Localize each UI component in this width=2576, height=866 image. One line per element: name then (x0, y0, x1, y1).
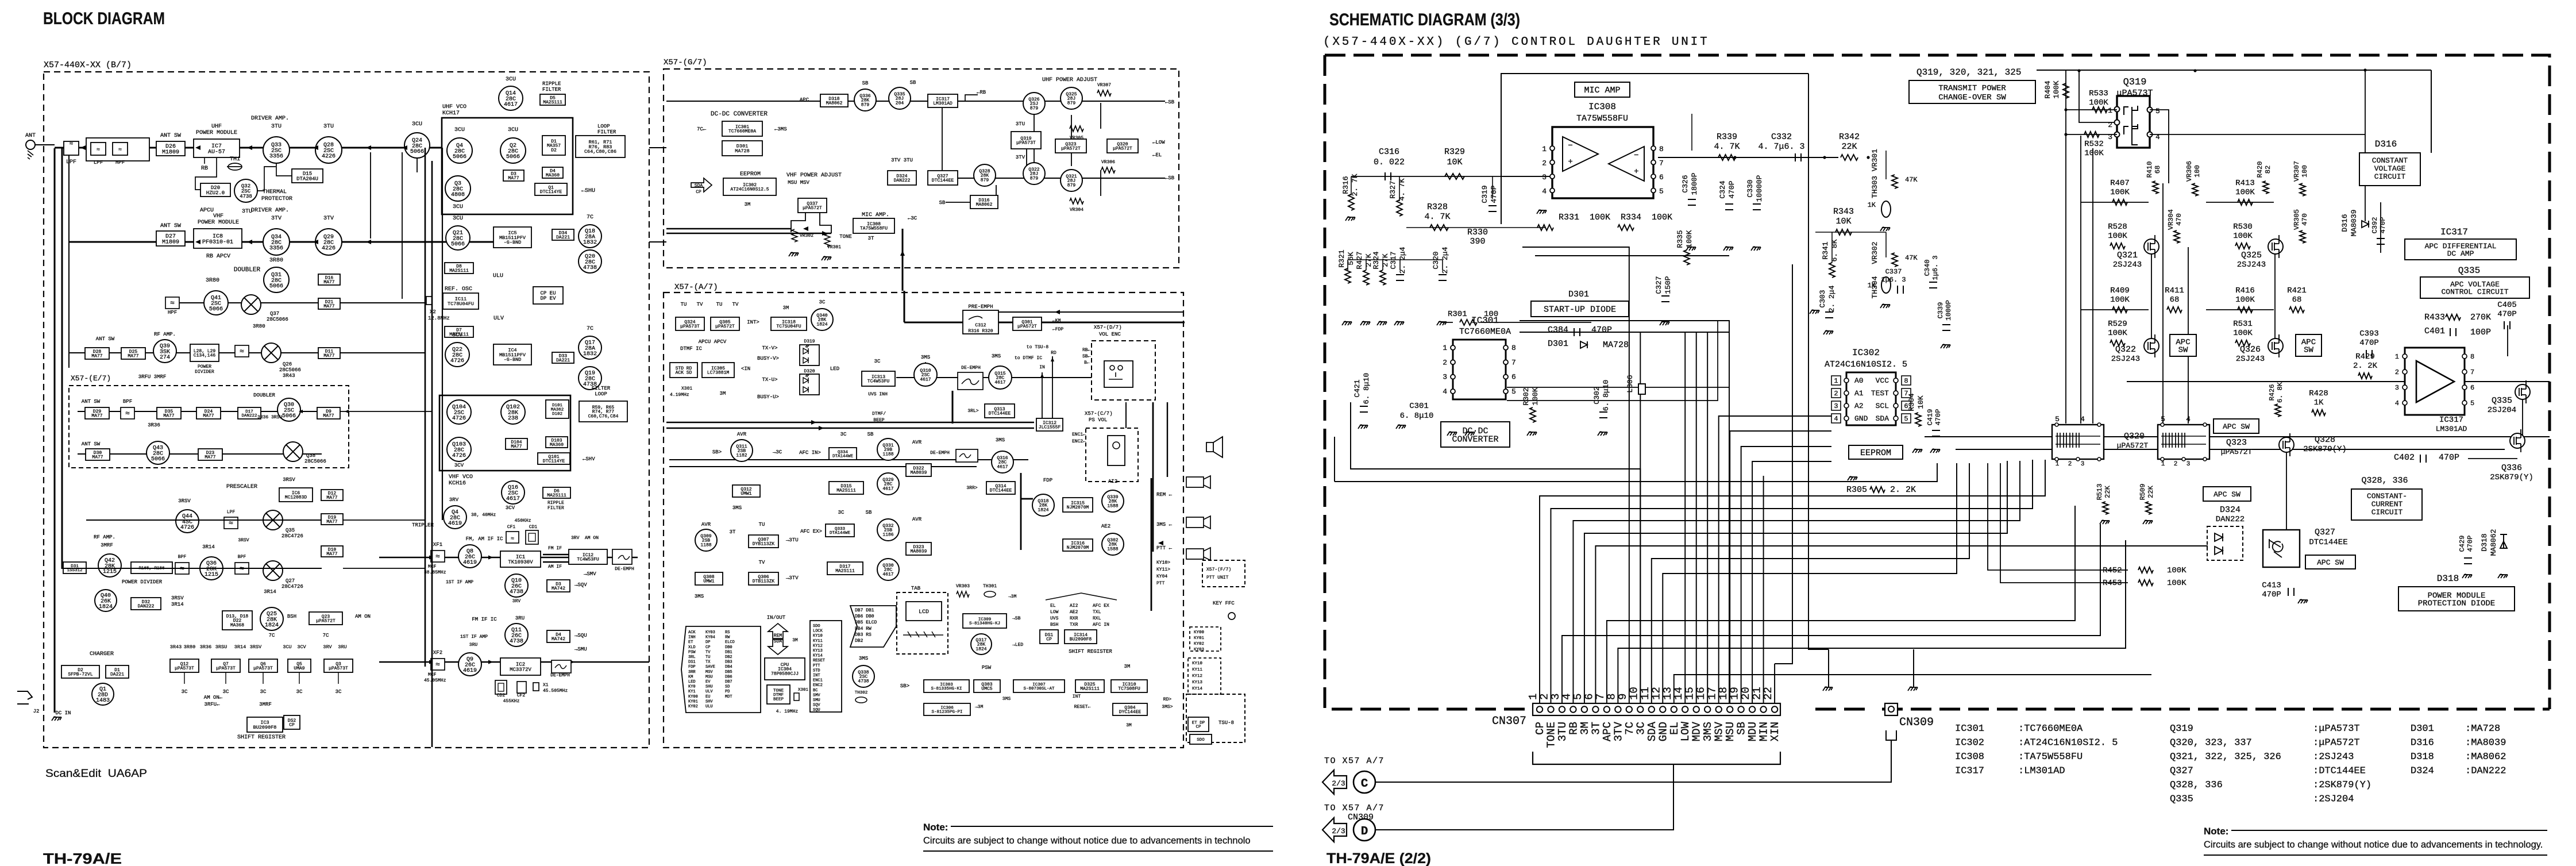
svg-text:X57-(A/7): X57-(A/7) (674, 283, 718, 292)
svg-text:AM IF: AM IF (548, 564, 562, 569)
svg-text:DOUBLER: DOUBLER (234, 267, 261, 274)
svg-text:6. 8K: 6. 8K (1830, 239, 1839, 261)
svg-text:1: 1 (2108, 106, 2112, 115)
svg-text:LM301AD: LM301AD (933, 101, 952, 106)
svg-text:IN: IN (1039, 365, 1045, 370)
svg-text:3T: 3T (868, 236, 874, 241)
svg-text:TAB: TAB (911, 586, 921, 591)
svg-text:3R43: 3R43 (283, 373, 295, 379)
svg-text:RD: RD (1051, 351, 1056, 356)
svg-text:10000P: 10000P (1755, 175, 1764, 202)
svg-text:to TSU-8: to TSU-8 (1027, 345, 1049, 350)
svg-text:MA77: MA77 (323, 414, 334, 419)
svg-text:DB2: DB2 (725, 655, 732, 660)
svg-text:DTA204U: DTA204U (296, 176, 318, 182)
svg-text:4. 7K: 4. 7K (1424, 212, 1450, 222)
svg-text:CF1: CF1 (507, 525, 516, 530)
svg-text:DB3 RS: DB3 RS (855, 632, 871, 637)
svg-text:R531: R531 (2233, 320, 2253, 329)
svg-text:3MS: 3MS (992, 353, 1001, 359)
svg-text:VR306: VR306 (2185, 161, 2193, 182)
svg-text:-G-BND: -G-BND (504, 240, 522, 245)
svg-text:Q321: Q321 (2117, 251, 2138, 260)
svg-text:TC4W53FU: TC4W53FU (577, 557, 599, 563)
svg-text:D301: D301 (1548, 339, 1568, 349)
svg-text:-G-BND: -G-BND (504, 357, 522, 363)
svg-text:5066: 5066 (451, 241, 465, 248)
svg-text:LCD: LCD (919, 609, 929, 615)
svg-text:SB>: SB> (712, 449, 722, 455)
svg-text:28C4726: 28C4726 (281, 584, 303, 590)
svg-text:C339: C339 (1937, 302, 1945, 319)
svg-text:5066: 5066 (506, 154, 520, 160)
svg-text:DB7: DB7 (725, 680, 732, 684)
svg-text:Q37: Q37 (270, 311, 279, 317)
svg-text:≈: ≈ (240, 347, 244, 356)
svg-text:R334 100K: R334 100K (1621, 213, 1672, 222)
svg-text:D316: D316 (2375, 139, 2397, 149)
svg-text:KY14: KY14 (813, 654, 823, 659)
svg-text:AM ON: AM ON (355, 614, 371, 619)
svg-text:ACK SD: ACK SD (676, 371, 692, 376)
svg-text:FILTER: FILTER (597, 129, 616, 135)
svg-text:CIRCUIT: CIRCUIT (2374, 172, 2406, 181)
svg-text:1: 1 (2395, 353, 2399, 361)
svg-text:Circuits are subject to change: Circuits are subject to change without n… (2204, 840, 2543, 850)
svg-text:TH303 VR301: TH303 VR301 (1871, 149, 1879, 198)
svg-text:AU-57: AU-57 (208, 149, 225, 155)
svg-text:2. 2μ4: 2. 2μ4 (1441, 247, 1449, 274)
svg-text:EEPROM: EEPROM (740, 171, 761, 178)
svg-text:MA8062: MA8062 (2489, 529, 2498, 556)
svg-text:Q335: Q335 (2458, 265, 2480, 276)
svg-text:8: 8 (1904, 377, 1908, 385)
svg-text:D2: D2 (551, 148, 557, 153)
svg-text:DTC144EE: DTC144EE (990, 488, 1012, 494)
svg-text:6. 8μ10: 6. 8μ10 (1602, 380, 1610, 411)
svg-text:4: 4 (2186, 415, 2191, 424)
svg-text:3MRF: 3MRF (101, 542, 113, 548)
svg-text:TC7660ME0A: TC7660ME0A (1459, 327, 1511, 337)
svg-text:3CU: 3CU (412, 121, 422, 128)
svg-text:DB4 RW: DB4 RW (855, 626, 871, 632)
svg-text:ANT SW: ANT SW (160, 223, 181, 229)
svg-text:TEST: TEST (1871, 389, 1889, 398)
svg-text:3R14: 3R14 (202, 544, 215, 550)
svg-text:DE-EMPH: DE-EMPH (930, 451, 950, 456)
svg-text:1000P: 1000P (1945, 300, 1953, 321)
svg-text:3RU: 3RU (469, 642, 478, 648)
svg-text:2SJ243: 2SJ243 (2236, 355, 2265, 364)
svg-text:68: 68 (2154, 165, 2162, 174)
svg-text:4: 4 (1834, 415, 1838, 423)
svg-text:TC7S08FU: TC7S08FU (1118, 687, 1140, 692)
svg-text:1: 1 (1443, 344, 1447, 352)
svg-text:100K: 100K (2084, 149, 2104, 158)
svg-text:KY10: KY10 (1192, 661, 1203, 666)
svg-text:SMV: SMV (813, 693, 820, 698)
svg-text:MA728: MA728 (1603, 340, 1629, 350)
svg-text:AFC EX>: AFC EX> (800, 529, 822, 534)
svg-text:C303: C303 (1818, 290, 1827, 307)
svg-text:DTMF/: DTMF/ (872, 411, 886, 417)
svg-text:MC12083D: MC12083D (285, 495, 307, 501)
svg-text:RXR: RXR (1070, 616, 1078, 621)
svg-text:R321: R321 (1337, 249, 1346, 267)
svg-text:DB1: DB1 (725, 650, 732, 655)
svg-text:4226: 4226 (322, 153, 336, 160)
svg-text:3CV: 3CV (297, 644, 306, 650)
svg-text:POWER: POWER (198, 364, 211, 370)
svg-text:MA8062: MA8062 (976, 202, 993, 207)
svg-text:5066: 5066 (151, 456, 165, 463)
svg-text:MA2S111: MA2S111 (543, 100, 562, 105)
svg-text:3M: 3M (1124, 664, 1131, 669)
svg-text:TH-79A/E: TH-79A/E (43, 850, 122, 866)
svg-text:TU: TU (705, 655, 710, 660)
svg-text:SDA: SDA (774, 639, 782, 644)
svg-text:3MRF: 3MRF (259, 702, 272, 707)
svg-text:→3C: →3C (773, 449, 782, 455)
svg-text:CD2: CD2 (497, 693, 506, 698)
svg-text:1: 1 (1834, 377, 1838, 385)
svg-text:3RFU 3MRF: 3RFU 3MRF (138, 374, 167, 380)
svg-text:μPA572T: μPA572T (1061, 147, 1081, 152)
svg-text:3T: 3T (730, 529, 736, 535)
svg-text:MA77: MA77 (205, 455, 215, 460)
svg-text:X2: X2 (430, 309, 436, 315)
svg-text:→3TV: →3TV (786, 575, 799, 581)
svg-text:C312: C312 (975, 323, 986, 328)
svg-text:1188: 1188 (700, 543, 711, 548)
svg-text:TSU-8: TSU-8 (1218, 720, 1234, 726)
svg-text:MSU: MSU (705, 675, 713, 679)
svg-text:MA77: MA77 (508, 176, 519, 181)
svg-text:PSW: PSW (982, 665, 992, 671)
svg-text:2. 7K: 2. 7K (1351, 174, 1359, 196)
svg-text:22K: 22K (2104, 485, 2112, 498)
svg-text:D320: D320 (804, 369, 815, 374)
svg-text:ANT SW: ANT SW (82, 441, 101, 447)
svg-text:R416: R416 (2235, 286, 2255, 295)
svg-text:DTC144EE: DTC144EE (932, 178, 954, 183)
svg-text:(X57-440X-XX) (G/7) CONTROL DA: (X57-440X-XX) (G/7) CONTROL DAUGHTER UNI… (1323, 36, 1709, 49)
svg-text:→SMV: →SMV (584, 571, 596, 577)
svg-text:ULV: ULV (705, 690, 713, 694)
svg-text:390: 390 (1470, 237, 1485, 247)
svg-text:C384: C384 (1548, 325, 1568, 335)
svg-text:MIC AMP: MIC AMP (1584, 86, 1620, 95)
svg-text:LOW: LOW (1050, 610, 1059, 615)
svg-text:DTA144WE: DTA144WE (832, 455, 854, 459)
svg-text:4: 4 (2080, 415, 2085, 424)
svg-text:3CV: 3CV (506, 505, 515, 511)
svg-text:BC: BC (813, 688, 817, 693)
svg-text:M1809: M1809 (162, 239, 179, 245)
svg-text:TC7660ME0A: TC7660ME0A (728, 129, 756, 134)
svg-text:Q35: Q35 (286, 528, 295, 533)
svg-text:MA8039: MA8039 (911, 471, 927, 476)
svg-text:3RU: 3RU (515, 615, 525, 621)
svg-text:0. 022: 0. 022 (1374, 157, 1405, 167)
svg-text:D318: D318 (2437, 574, 2459, 584)
svg-text:IC317: IC317 (2440, 227, 2468, 237)
svg-text:Q327: Q327 (2315, 528, 2335, 537)
svg-text:PD: PD (725, 690, 730, 694)
svg-text:100K: 100K (2110, 188, 2130, 197)
svg-text:DC-DC CONVERTER: DC-DC CONVERTER (711, 111, 768, 118)
svg-text:238: 238 (508, 415, 518, 422)
svg-text:3TV: 3TV (1016, 155, 1025, 160)
svg-text:Q336: Q336 (2501, 463, 2522, 473)
svg-text:STD: STD (813, 668, 820, 673)
svg-text:C324: C324 (1718, 180, 1727, 198)
svg-text:THERMAL: THERMAL (263, 189, 287, 195)
svg-text:3CU: 3CU (506, 76, 516, 83)
svg-text:MA368: MA368 (230, 623, 244, 628)
svg-text:100K: 100K (2235, 188, 2255, 197)
svg-text:4: 4 (1542, 187, 1547, 196)
svg-text:KY14: KY14 (1192, 687, 1203, 691)
svg-text:5066: 5066 (269, 283, 283, 290)
svg-text:28C5066: 28C5066 (279, 367, 301, 373)
svg-text:MA77: MA77 (91, 414, 102, 419)
svg-text:8: 8 (2470, 353, 2474, 361)
svg-text:μPA573T: μPA573T (253, 666, 273, 671)
svg-text:XLD: XLD (688, 645, 696, 650)
svg-text:7C: 7C (587, 214, 593, 221)
svg-text:C332: C332 (1771, 132, 1792, 142)
svg-text:TX-V>: TX-V> (762, 345, 777, 351)
svg-text:C402: C402 (2394, 453, 2415, 463)
svg-text:12.8MHz: 12.8MHz (428, 315, 450, 321)
svg-text:Q323: Q323 (2226, 438, 2247, 448)
svg-text:R404: R404 (2043, 80, 2052, 98)
svg-text:470P: 470P (2439, 453, 2459, 463)
svg-text:R305: R305 (1846, 485, 1867, 495)
svg-text:3MS>: 3MS> (1162, 705, 1173, 710)
svg-text:DC IN: DC IN (55, 710, 71, 716)
svg-text:BU2090F8: BU2090F8 (1070, 637, 1092, 642)
svg-text:EL: EL (1050, 603, 1056, 609)
svg-text:MSV: MSV (705, 670, 713, 675)
svg-text:3M: 3M (783, 305, 789, 311)
svg-text:3R36 3RSU: 3R36 3RSU (257, 415, 282, 420)
svg-text:MA8039: MA8039 (2350, 210, 2358, 237)
svg-text:IC308: IC308 (1955, 752, 1984, 763)
svg-text::AT24C16N10SI2. 5: :AT24C16N10SI2. 5 (2018, 738, 2118, 749)
svg-text:MA77: MA77 (326, 495, 337, 501)
svg-text:DA221: DA221 (556, 235, 570, 240)
svg-text:4808: 4808 (451, 192, 465, 198)
svg-text:4738: 4738 (583, 265, 597, 271)
svg-text:SW: SW (2304, 346, 2313, 355)
svg-text:DYC144EE: DYC144EE (1119, 710, 1142, 715)
svg-text:C: C (1361, 778, 1368, 791)
svg-text:C317: C317 (1389, 251, 1398, 269)
svg-text:PROTECTION DIODE: PROTECTION DIODE (2418, 599, 2495, 609)
svg-text:100K: 100K (2235, 295, 2255, 305)
svg-text:Q26: Q26 (283, 361, 292, 367)
svg-text:879: 879 (1067, 101, 1076, 106)
svg-text:100K: 100K (2167, 566, 2186, 575)
svg-text:KY04: KY04 (705, 636, 715, 640)
svg-text:470P: 470P (2466, 536, 2474, 552)
svg-text:KY03: KY03 (705, 630, 715, 635)
svg-text:−: − (1568, 141, 1572, 151)
svg-text:MA2S111: MA2S111 (835, 569, 855, 574)
svg-text:MA2S111: MA2S111 (836, 488, 856, 494)
svg-text:7: 7 (2470, 368, 2474, 376)
svg-text:IC302: IC302 (1852, 348, 1880, 358)
svg-text:5: 5 (2470, 399, 2474, 407)
svg-text:KY00: KY00 (1194, 630, 1205, 635)
svg-text:TO X57 A/7: TO X57 A/7 (1324, 756, 1385, 766)
svg-text:2SJ204: 2SJ204 (2488, 406, 2516, 415)
svg-text:4738: 4738 (510, 638, 523, 645)
svg-text:BPF: BPF (238, 555, 246, 560)
svg-text:C320: C320 (1432, 251, 1440, 269)
svg-text:DTC144EE: DTC144EE (2309, 538, 2347, 547)
svg-text:Note:: Note: (2204, 826, 2228, 837)
svg-text:R327: R327 (1389, 180, 1397, 198)
svg-text:BSH: BSH (1050, 622, 1059, 628)
svg-text:FM IF IC: FM IF IC (472, 617, 497, 622)
svg-text:C393: C393 (2359, 329, 2379, 338)
svg-text:DTA144WE: DTA144WE (830, 531, 851, 536)
svg-text:R426: R426 (2268, 384, 2276, 401)
svg-text:SDA: SDA (695, 183, 703, 188)
svg-text:MDT: MDT (725, 695, 732, 699)
svg-text:REM: REM (774, 633, 782, 638)
svg-text:KY00: KY00 (688, 695, 698, 699)
svg-text:PF0310-01: PF0310-01 (202, 239, 233, 245)
svg-text::MA728: :MA728 (2465, 723, 2500, 734)
svg-text:TC78U04FU: TC78U04FU (448, 301, 474, 307)
svg-text:D324: D324 (2411, 766, 2434, 777)
svg-text:LPF: LPF (227, 510, 236, 515)
svg-text:SQV: SQV (813, 703, 820, 708)
svg-text:APC SW: APC SW (2317, 558, 2344, 567)
svg-text:VR305: VR305 (2293, 209, 2301, 230)
svg-text:CONSTANT: CONSTANT (2372, 156, 2408, 165)
svg-text:D318: D318 (2480, 533, 2489, 551)
svg-text:MIC AMP.: MIC AMP. (862, 212, 889, 218)
svg-text:100K: 100K (2108, 232, 2127, 241)
svg-text:KY12: KY12 (1192, 674, 1202, 679)
svg-text:1588: 1588 (1107, 504, 1118, 509)
svg-text:EV: EV (705, 680, 711, 684)
svg-text:PTT ←: PTT ← (1156, 545, 1173, 551)
svg-text:100K: 100K (2108, 329, 2127, 338)
svg-text:ENC2←: ENC2← (1072, 439, 1086, 444)
svg-text:5066: 5066 (209, 306, 223, 313)
svg-text:4617: 4617 (997, 465, 1008, 470)
svg-text:Q328, 336: Q328, 336 (2361, 476, 2408, 486)
svg-text:S-81335HG-KI: S-81335HG-KI (931, 687, 962, 691)
svg-text:879: 879 (861, 103, 870, 108)
svg-text:DB7 DB1: DB7 DB1 (855, 608, 874, 613)
svg-text:CF2: CF2 (517, 693, 526, 698)
svg-text:BEEP: BEEP (773, 697, 784, 702)
svg-text:5066: 5066 (410, 149, 424, 155)
svg-text:→SQV: →SQV (574, 582, 587, 588)
svg-text:1μ6. 3: 1μ6. 3 (1931, 255, 1939, 280)
svg-text:←SHV: ←SHV (583, 456, 595, 462)
svg-text:←SHU: ←SHU (581, 188, 595, 194)
svg-text:TH301: TH301 (983, 584, 997, 589)
svg-text:DB6 DB0: DB6 DB0 (855, 614, 874, 619)
svg-text:3MS ←: 3MS ← (1156, 522, 1173, 528)
svg-text:3RSV: 3RSV (283, 477, 295, 483)
svg-text:UHF POWER ADJUST: UHF POWER ADJUST (1042, 77, 1097, 83)
svg-text:DAN222: DAN222 (138, 604, 155, 609)
svg-text:PROTECTOR: PROTECTOR (261, 196, 292, 202)
svg-text:3CV: 3CV (452, 332, 462, 338)
svg-text:D: D (1361, 825, 1368, 838)
svg-text:3C: 3C (296, 689, 303, 695)
svg-text:VCC: VCC (1876, 376, 1889, 385)
svg-text::μPA573T: :μPA573T (2313, 723, 2360, 734)
svg-text:S-80730SL-AT: S-80730SL-AT (1023, 687, 1055, 691)
svg-text:879: 879 (1030, 176, 1039, 182)
svg-text:←SB: ←SB (1165, 175, 1175, 181)
svg-text:5066: 5066 (282, 413, 296, 419)
svg-text:4. 7K: 4. 7K (1398, 178, 1406, 201)
svg-text:RB APCV: RB APCV (206, 253, 230, 260)
svg-text:3RU: 3RU (338, 644, 346, 650)
svg-text:MA77: MA77 (326, 519, 337, 525)
svg-text:EEPROM: EEPROM (1860, 448, 1891, 458)
svg-text:DRIVER AMP.: DRIVER AMP. (251, 207, 289, 214)
svg-text:SCHEMATIC DIAGRAM (3/3): SCHEMATIC DIAGRAM (3/3) (1329, 10, 1520, 29)
svg-text:MA77: MA77 (203, 414, 214, 419)
svg-text:B←: B← (1084, 360, 1090, 365)
svg-text:3TU: 3TU (271, 124, 281, 130)
svg-text:3: 3 (1834, 402, 1838, 410)
svg-text:3R80: 3R80 (253, 324, 265, 329)
svg-text:3R36: 3R36 (200, 644, 211, 650)
svg-text:27K: 27K (1381, 253, 1390, 267)
svg-text:MA2S111: MA2S111 (1080, 687, 1100, 692)
svg-text:to DTMF IC: to DTMF IC (1015, 356, 1042, 361)
svg-text:AVR: AVR (701, 522, 711, 528)
svg-text:PTT: PTT (1156, 581, 1165, 586)
svg-text:HZU2.0: HZU2.0 (206, 190, 225, 196)
svg-text:3: 3 (2081, 461, 2085, 468)
svg-text:BUSY-U>: BUSY-U> (757, 394, 779, 400)
svg-text:Q328, 336: Q328, 336 (2170, 780, 2223, 791)
svg-text:D318: D318 (2411, 752, 2434, 763)
svg-text:ELCD: ELCD (725, 640, 735, 645)
svg-text:UMA9: UMA9 (294, 666, 304, 671)
svg-text:3RL>: 3RL> (967, 409, 978, 414)
svg-text:MC3372V: MC3372V (510, 667, 531, 672)
svg-text:3MS: 3MS (996, 437, 1005, 443)
svg-text:470P: 470P (1490, 185, 1498, 203)
svg-text:1215: 1215 (103, 569, 117, 575)
svg-text:5: 5 (1511, 387, 1516, 396)
svg-text:AVR: AVR (737, 432, 747, 437)
svg-text:MA77: MA77 (163, 414, 174, 419)
svg-text:1824: 1824 (975, 647, 986, 652)
svg-text:CURRENT: CURRENT (2371, 500, 2403, 509)
svg-text:1824: 1824 (1038, 508, 1048, 513)
svg-text:BUSY-V>: BUSY-V> (757, 356, 779, 361)
svg-text:3M: 3M (792, 638, 798, 643)
svg-text:4726: 4726 (450, 358, 464, 364)
svg-text:X57-440X-XX (B/7): X57-440X-XX (B/7) (44, 60, 132, 70)
